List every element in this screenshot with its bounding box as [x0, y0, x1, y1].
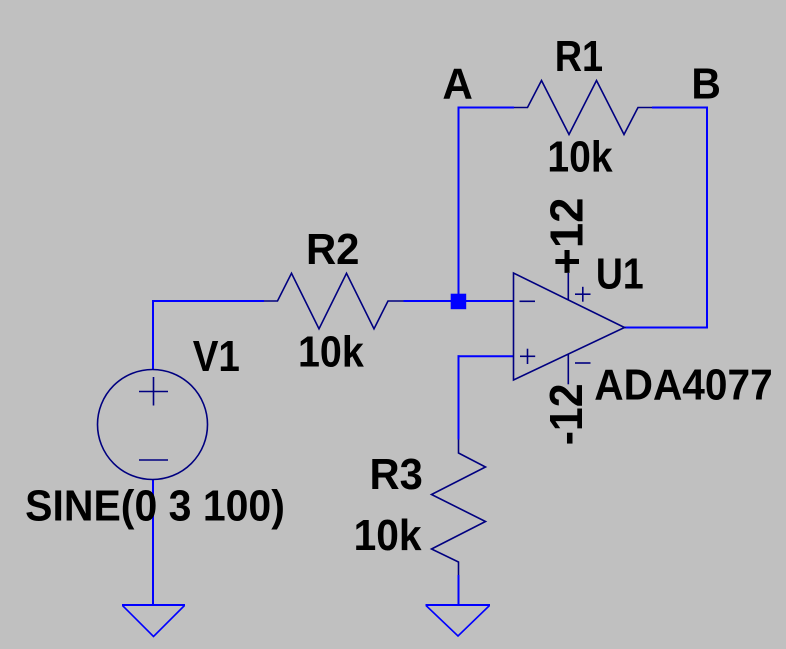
- resistor R3 vertical: [432, 440, 486, 576]
- wire from R2 right pin to U1 inverting input: [404, 300, 515, 302]
- svg-text:-12: -12: [540, 384, 592, 446]
- wire from node A corner right to R1 left pin: [458, 107, 515, 109]
- op-amp U1 triangle: [514, 273, 625, 380]
- wire from node A corner down to junction: [458, 108, 460, 301]
- svg-text:U1: U1: [596, 250, 644, 299]
- wire noninverting down to R3 top pin: [458, 355, 460, 439]
- wire node B vertical down to output level: [706, 107, 708, 328]
- ground symbol at V1: [122, 605, 185, 637]
- voltage source V1 circle: [98, 370, 208, 480]
- svg-text:B: B: [691, 59, 721, 108]
- svg-text:10k: 10k: [547, 132, 613, 181]
- svg-text:+12: +12: [540, 198, 592, 275]
- svg-text:V1: V1: [193, 332, 240, 381]
- V1 minus sign: [139, 459, 168, 461]
- svg-text:ADA4077: ADA4077: [594, 360, 772, 409]
- wire from V1 corner to R2 left pin: [153, 300, 264, 302]
- ground symbol at R3: [426, 605, 491, 636]
- U1 negative supply minus mark: [575, 362, 591, 364]
- wire V1 bottom to ground: [152, 479, 154, 605]
- resistor R2: [264, 273, 404, 329]
- U1 negative supply pin: [567, 354, 569, 384]
- wire V1 top vertical: [152, 300, 154, 370]
- V1 plus sign: [139, 377, 168, 406]
- svg-text:A: A: [442, 59, 473, 108]
- svg-text:R3: R3: [370, 450, 423, 499]
- svg-text:R1: R1: [555, 32, 603, 81]
- svg-text:R2: R2: [306, 225, 360, 274]
- U1 positive supply pin: [567, 273, 569, 300]
- junction square at inverting input node: [451, 294, 467, 310]
- svg-text:10k: 10k: [298, 328, 364, 377]
- resistor R1: [514, 81, 652, 135]
- svg-text:10k: 10k: [354, 511, 422, 560]
- U1 positive supply plus mark: [575, 287, 591, 302]
- wire U1 noninverting input horizontal: [458, 355, 515, 357]
- wire op-amp output to node B column: [625, 327, 709, 329]
- U1 inverting input minus mark: [520, 300, 536, 302]
- svg-text:SINE(0 3 100): SINE(0 3 100): [25, 482, 285, 531]
- wire from R1 right pin to node B corner: [652, 107, 708, 109]
- wire R3 bottom pin to ground: [458, 575, 460, 605]
- U1 noninverting input plus mark: [520, 349, 535, 364]
